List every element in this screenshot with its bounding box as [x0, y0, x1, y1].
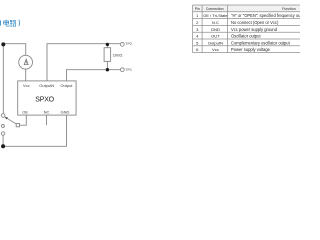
svg-text:OE: OE: [22, 109, 28, 114]
svg-text:Output: Output: [60, 83, 73, 88]
svg-text:Complementary oscillator outpu: Complementary oscillator output: [231, 40, 291, 45]
svg-text:OutputN: OutputN: [39, 83, 54, 88]
svg-text:TP2: TP2: [125, 42, 132, 46]
svg-text:OUT: OUT: [211, 34, 220, 39]
svg-text:5: 5: [196, 40, 199, 45]
svg-text:Connection: Connection: [206, 7, 224, 11]
svg-text:Function: Function: [282, 7, 295, 11]
svg-text:Oscillator output: Oscillator output: [231, 34, 261, 39]
svg-text:SPXO: SPXO: [35, 96, 54, 103]
svg-text:N.C: N.C: [212, 20, 219, 25]
svg-text:Vcc: Vcc: [212, 47, 219, 52]
svg-text:2: 2: [196, 20, 199, 25]
svg-text:TP1: TP1: [125, 68, 132, 72]
svg-text:GND: GND: [60, 109, 69, 114]
svg-text:GND: GND: [211, 27, 220, 32]
svg-text:6: 6: [196, 47, 199, 52]
svg-text:Vcc power supply ground: Vcc power supply ground: [231, 27, 278, 32]
svg-text:No connect (Open or Vcc): No connect (Open or Vcc): [231, 20, 279, 25]
svg-text:Vcc: Vcc: [23, 83, 30, 88]
svg-text:Power supply voltage: Power supply voltage: [231, 47, 271, 52]
svg-text:NC: NC: [44, 109, 50, 114]
svg-text:Pin: Pin: [195, 7, 200, 11]
svg-text:"H" or "OPEN": specified frequ: "H" or "OPEN": specified frequency outpu…: [231, 13, 300, 18]
svg-text:3: 3: [196, 27, 199, 32]
svg-text:1: 1: [196, 13, 199, 18]
svg-text:4: 4: [196, 34, 199, 39]
svg-text:OutputN: OutputN: [208, 40, 223, 45]
svg-text:OE / Tri-State: OE / Tri-State: [203, 13, 228, 18]
svg-text:100Ω: 100Ω: [113, 53, 123, 58]
